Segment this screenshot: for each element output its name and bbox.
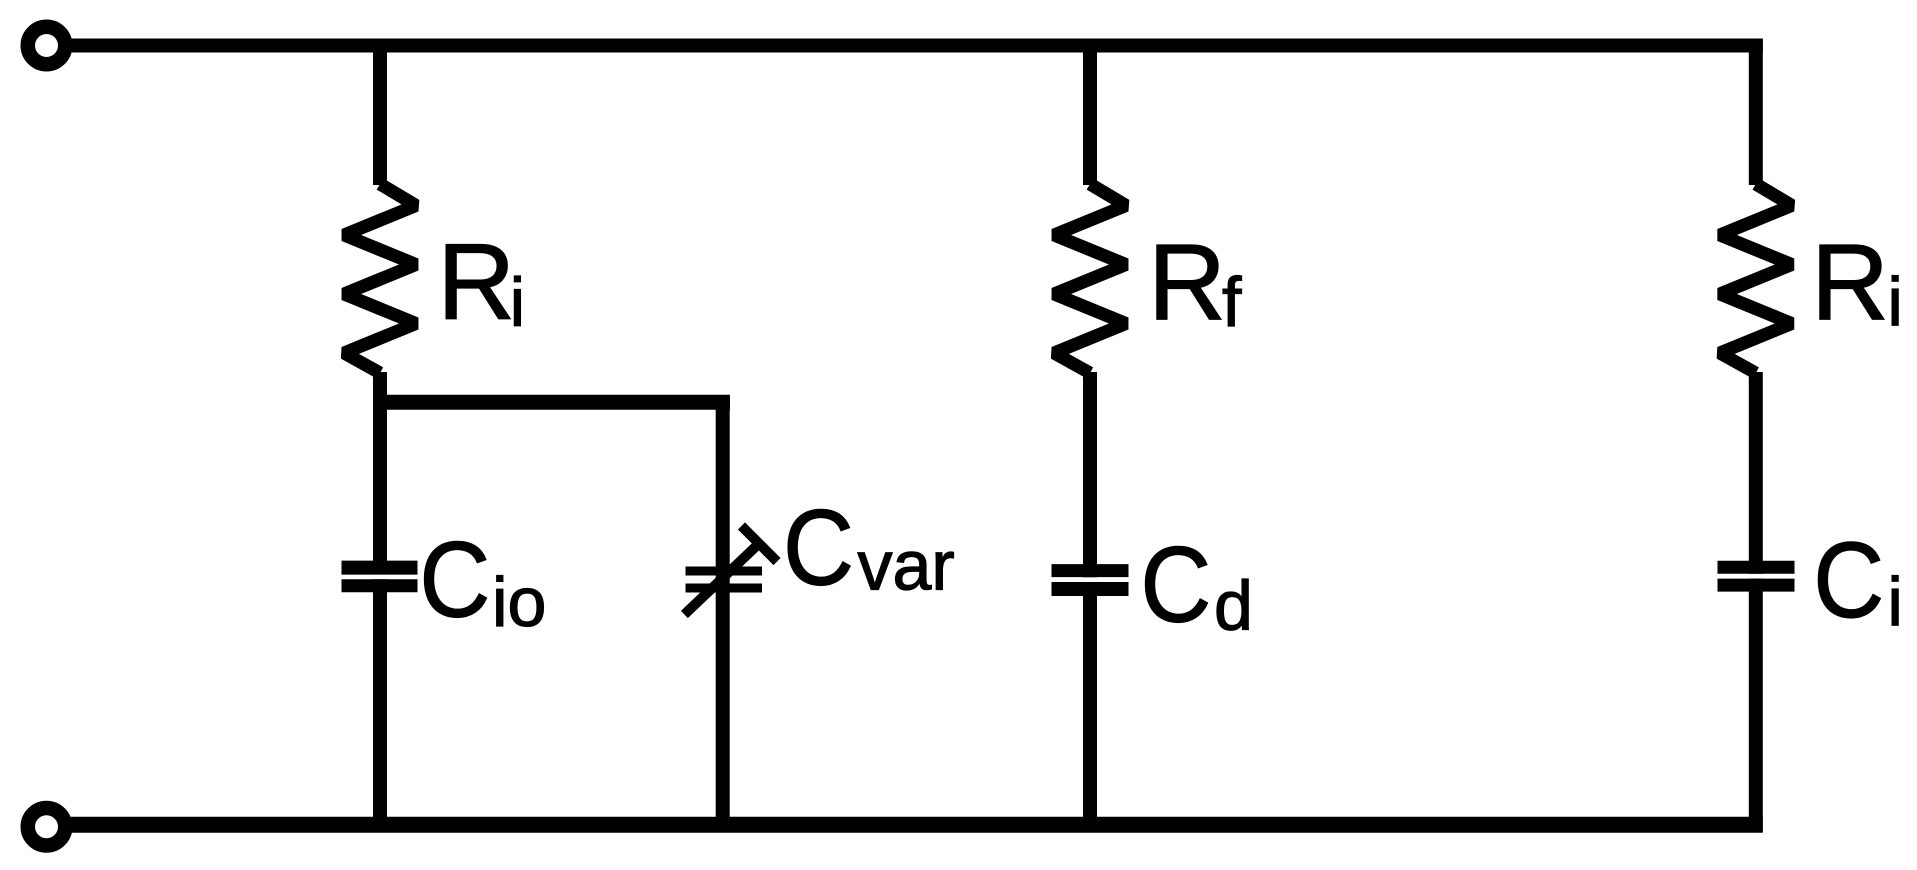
capacitor Cd top plate — [1052, 564, 1129, 577]
wire: box right vertical through Cvar — [716, 395, 730, 826]
svg-text:i: i — [1888, 264, 1903, 341]
terminal (top-left input) — [28, 27, 66, 65]
wire: top rail corner down to resistor Ri (right branch) — [1749, 39, 1763, 186]
wire: top rail down to resistor Ri (left branch) — [373, 46, 387, 186]
svg-text:var: var — [858, 527, 955, 605]
wire: Ci bottom plate to bottom rail corner — [1749, 579, 1763, 831]
label Cvar — [783, 487, 955, 607]
svg-text:R: R — [1148, 222, 1226, 343]
wire: Cio bottom plate to bottom rail — [373, 579, 387, 826]
capacitor Cio top plate — [342, 561, 418, 575]
wire: resistor Rf bottom to Cd top plate — [1083, 372, 1097, 577]
svg-text:f: f — [1222, 263, 1242, 341]
label Ci — [1813, 520, 1903, 641]
capacitor Cvar bottom plate — [686, 584, 763, 593]
capacitor Ci top plate — [1718, 561, 1795, 574]
capacitor Cvar top plate — [686, 567, 763, 576]
capacitor Cvar trimmer T-bar — [745, 530, 774, 559]
wire: bottom rail — [71, 817, 1763, 833]
label Cio — [419, 519, 546, 641]
svg-text:R: R — [1811, 222, 1889, 343]
capacitor Cvar trimmer diagonal — [688, 545, 758, 612]
svg-text:C: C — [419, 519, 490, 639]
svg-text:i: i — [510, 264, 525, 341]
capacitor Ci bottom plate — [1718, 579, 1795, 592]
resistor Ri (left) — [344, 184, 416, 373]
svg-text:C: C — [1140, 524, 1211, 644]
resistor Rf — [1054, 184, 1126, 373]
wire: resistor Ri bottom to Cio top plate — [373, 372, 387, 575]
capacitor Cio bottom plate — [342, 579, 418, 592]
wire: Cd bottom plate to bottom rail — [1083, 582, 1097, 826]
svg-text:R: R — [437, 221, 515, 342]
wire: top rail down to resistor Rf (middle branch) — [1083, 46, 1097, 186]
terminal (bottom-left input) — [28, 808, 66, 846]
svg-text:C: C — [783, 487, 854, 607]
svg-text:C: C — [1813, 520, 1884, 640]
svg-text:d: d — [1214, 567, 1253, 645]
label Ri (left) — [437, 221, 525, 342]
label Rf — [1148, 222, 1242, 343]
wire: box top node (Ri to Cio / Cvar) — [373, 395, 730, 410]
label Cd — [1140, 524, 1253, 644]
label Ri (right) — [1811, 222, 1903, 343]
resistor Ri (right) — [1720, 184, 1792, 373]
svg-text:io: io — [492, 563, 546, 641]
capacitor Cd bottom plate — [1052, 582, 1129, 596]
svg-text:i: i — [1888, 564, 1903, 641]
wire: resistor Ri bottom to Ci top plate — [1749, 372, 1763, 574]
wire: top rail — [71, 39, 1763, 53]
